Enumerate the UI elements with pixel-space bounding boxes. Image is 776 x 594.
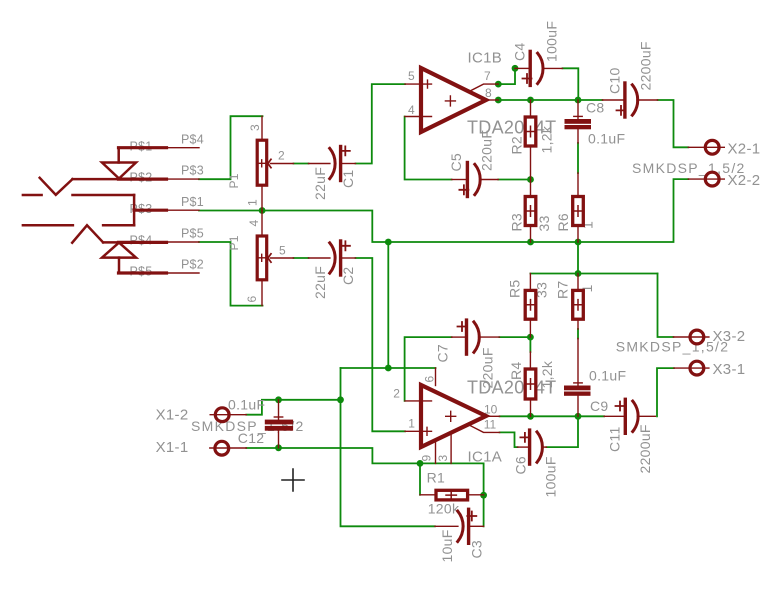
node X1-2 rail corner [337,396,344,403]
pot1 pin 3 lead [261,116,263,140]
svg-text:6: 6 [245,296,259,303]
svg-text:C5: C5 [448,153,464,172]
svg-text:C2: C2 [340,267,356,286]
svg-text:22uF: 22uF [312,266,328,299]
capacitor C2 22uF [309,241,356,275]
svg-text:C1: C1 [340,170,356,189]
resistor R5 33 [525,274,536,338]
svg-text:P$2: P$2 [181,258,204,272]
svg-text:X1-1: X1-1 [156,439,189,456]
svg-text:C9: C9 [590,398,609,414]
resistor R7 1 [573,274,584,330]
C4 straight plate [529,51,532,85]
wire C11 right to X3-1 [657,368,674,416]
C10 curved plate [632,85,637,115]
svg-text:X2-2: X2-2 [728,172,761,189]
wire R1 right column down to C3 [483,463,485,526]
jack stub1 vertical [117,148,120,163]
svg-text:0.1uF: 0.1uF [589,368,626,384]
C4 curved plate [538,53,543,83]
node C12 bottom [275,444,282,451]
wire C5 right to R2/R3 node [498,179,530,181]
node IC1B pin8 [495,97,502,104]
capacitor C10 2200uF [602,83,657,117]
C1 plus [341,146,350,155]
wire R5/R7 row [530,273,657,275]
jack sleeve seg A [23,224,73,227]
wire net P$1: jack pin across to X2-2 riser [199,179,688,242]
C2 curved plate [330,243,335,273]
svg-text:2: 2 [278,149,285,163]
svg-text:7: 7 [484,69,491,83]
jack triangle 2 [102,243,136,258]
svg-text:R4: R4 [508,362,524,381]
resistor R3 33 [525,180,536,243]
svg-text:1,2k: 1,2k [539,360,555,388]
wire net P$3: jack pin to pot P1 pin 3 [199,116,263,179]
node R4 bottom / output row [527,413,534,420]
C1 curved plate [330,148,335,178]
C11 plus [616,402,625,411]
wire C4 right down to output row [563,68,579,100]
pot2 wiper arrowhead [268,254,271,262]
node R5 bottom / C7 / R4 [527,334,534,341]
node R2 bottom / C5 / R3 [527,176,534,183]
C7 curved plate [474,322,479,352]
svg-text:R2: R2 [509,136,525,155]
jack switch lambda contact [72,225,103,242]
node R2 top [527,97,534,104]
node R1 right [480,492,487,499]
svg-text:R3: R3 [509,213,525,232]
wire IC1A output row pin10 to C11 [500,415,604,417]
jack sleeve dash [23,194,42,197]
wire IC1A pin6 row [341,367,436,369]
capacitor C9 0.1uF [564,339,591,417]
svg-text:X3-1: X3-1 [713,361,746,378]
potentiometer P1 lower half [257,211,293,306]
node R7 top [575,270,582,277]
svg-text:100uF: 100uF [543,456,559,497]
svg-text:3: 3 [436,455,450,462]
node C4 left [512,65,519,72]
svg-text:9: 9 [420,455,434,462]
potentiometer P1 upper half [257,116,293,210]
svg-text:C6: C6 [513,456,529,475]
IC1B pin 5 lead + plus [405,80,432,88]
capacitor C8 0.1uF [565,100,592,143]
jack line pin P$5 stub5 [119,272,167,275]
wire R5/R4 node gap [529,337,531,352]
jack line pin P$1 stub1 [119,146,167,149]
svg-text:P$1: P$1 [181,195,204,209]
jack tip line [73,194,135,197]
C4 plus [523,74,532,83]
svg-text:11: 11 [484,418,497,432]
wire branch node A down to IC1A pin6 row [387,242,389,368]
svg-text:2200uF: 2200uF [637,424,653,473]
wire X1-2 rail down to bottom rail toward C3 [341,400,435,527]
wire IC1B output row pin8 to C10 [498,99,602,101]
IC1B pin 8 lead [486,99,498,101]
IC1A pin 6 lead [435,368,437,386]
C3 plus [467,512,476,521]
jack stub5 vertical [118,258,121,273]
svg-text:X3-2: X3-2 [713,328,746,345]
wire C1 to IC1B pin 5 [356,84,406,163]
svg-text:0.1uF: 0.1uF [228,397,265,413]
wire pin7 up to C4 left [498,68,515,84]
svg-text:3: 3 [248,124,262,131]
IC1A origin cross [446,411,456,421]
pot2 pin 6 lead [261,280,263,306]
resistor R2 1,2k [525,100,536,180]
pot1 wiper arrowhead [268,159,271,167]
capacitor C11 2200uF [604,399,655,433]
svg-text:C8: C8 [586,100,605,116]
capacitor C3 10uF [435,509,484,543]
node IC1B pin7 [495,81,502,88]
capacitor C6 100uF [518,430,547,464]
svg-text:120k: 120k [428,500,460,516]
C3 straight plate [467,509,470,543]
wire C2 to IC1A pin 1 [356,258,406,431]
C5 curved plate [475,164,480,194]
svg-text:IC1B: IC1B [468,50,503,67]
pot2 pin 4 lead [261,211,263,237]
svg-text:33: 33 [536,215,552,231]
terminal X2-1 [688,140,724,154]
C3 curved plate [458,511,463,541]
pot2 wiper lead [271,257,294,259]
terminal X1-2 [210,408,246,422]
svg-text:2200uF: 2200uF [638,41,654,90]
IC1A pin 11 lead [470,426,500,433]
C10 plus [617,106,626,115]
svg-text:P$4: P$4 [130,234,153,248]
svg-text:C10: C10 [607,67,623,94]
IC1A pin 2 lead [405,400,432,402]
capacitor C12 0.1uF [265,400,293,448]
pot1 wiper lead [271,163,294,165]
svg-text:6: 6 [423,376,437,383]
jack tip vertical [133,195,136,225]
node R6 bottom [575,239,582,246]
node output A / C6 / C9 / C11 [575,413,582,420]
C2 straight plate [339,241,342,275]
node C12 top [275,396,282,403]
pot2 origin cross [258,254,265,261]
resistor R1 120k [420,490,484,500]
svg-text:P1: P1 [227,173,241,188]
svg-text:5: 5 [279,244,286,258]
jack connector J1 symbol [23,148,167,273]
wire R7 row to X3-2 [658,274,674,338]
C7 plus [458,322,467,331]
C1 straight plate [339,147,342,181]
terminal X2-2 [688,172,724,186]
svg-text:0.1uF: 0.1uF [588,131,625,147]
node pins 9/3 junction [417,460,424,467]
wire pin6 row down to X1-2 node [340,368,342,400]
IC1A pin 3 lead [450,433,452,463]
svg-text:R5: R5 [507,280,523,299]
C2 plus [341,241,350,250]
wire net X1-1 to IC1A pins 9/3 row [246,448,483,463]
svg-text:P1: P1 [227,235,241,250]
IC1B origin cross [445,96,455,106]
svg-text:5: 5 [408,69,415,83]
wire net P$5: jack pin to pot P1 pin 6 [199,242,263,306]
pot1 origin cross [258,160,265,167]
svg-text:1,2k: 1,2k [539,125,555,153]
IC1B pin 7 lead [470,84,498,91]
capacitor C4 100uF [515,51,563,85]
svg-text:R6: R6 [555,213,571,232]
C5 plus [459,185,468,194]
C6 straight plate [528,430,531,464]
wire C8 to R6 gap [577,143,579,173]
jack pin thick stubs [119,146,167,149]
capacitor C1 22uF [309,146,356,180]
capacitor C5 220uF [452,163,499,197]
svg-text:X2-1: X2-1 [728,140,761,157]
node C4/C8/C10 junction [575,97,582,104]
svg-text:C11: C11 [607,426,623,452]
resistor R6 1 [573,173,584,242]
IC1A pin 10 lead [486,415,500,417]
node pin6 row branch [385,365,392,372]
C10 straight plate [623,83,626,117]
svg-text:IC1A: IC1A [468,448,503,465]
wire C6 right up to output node [546,416,578,447]
jack tip lower seg [103,224,134,227]
op-amp IC1B [405,68,498,132]
svg-text:220uF: 220uF [480,347,496,388]
svg-text:C3: C3 [469,540,485,559]
node A on long rail [385,239,392,246]
wire pot2 wiper to C2 [294,257,309,259]
svg-text:2: 2 [393,387,400,401]
svg-text:4: 4 [408,103,415,117]
wire branch R6 column to R7 row [577,242,579,274]
svg-text:C12: C12 [238,430,265,446]
C5 straight plate [466,163,469,197]
IC1A pin 9 lead [435,440,437,463]
terminal X3-2 [673,330,709,344]
svg-text:C7: C7 [435,344,451,363]
sheet origin cross [282,469,304,491]
svg-text:22uF: 22uF [312,167,328,200]
svg-text:4: 4 [247,220,261,227]
wire 9/3 node down to R1 left [419,463,421,494]
wire C10 right to X2-1 [658,100,689,147]
svg-text:P$5: P$5 [181,227,204,241]
op-amp IC1A [405,368,500,463]
jack switch V contact [40,178,73,195]
svg-text:10uF: 10uF [439,529,455,562]
wire IC1A pin2 up to C7 [405,337,452,401]
jack thin pin leads [167,147,200,149]
svg-text:220uF: 220uF [479,130,495,171]
svg-text:C4: C4 [512,43,528,62]
wire IC1B pin4 to C5 [405,117,452,180]
svg-text:1: 1 [246,199,260,206]
node pot P1 junction on net P$1 [259,207,266,214]
terminal X3-1 [674,361,709,375]
IC1A pin 1 lead + plus [405,427,432,435]
svg-text:100uF: 100uF [544,21,560,62]
C11 curved plate [633,401,638,431]
svg-text:P$4: P$4 [181,133,204,147]
wire R7 to C9 gap [577,329,579,339]
C11 straight plate [624,399,627,433]
C6 plus [520,433,529,442]
capacitor C7 220uF [452,320,500,354]
wire pot1 wiper to C1 [294,163,309,165]
svg-text:X1-2: X1-2 [156,406,189,423]
svg-text:R7: R7 [555,281,571,300]
pot1 pin 1 lead [261,186,263,211]
svg-text:1: 1 [408,417,415,431]
resistor R4 1,2k [525,352,536,416]
svg-text:P$3: P$3 [181,164,204,178]
C6 curved plate [537,432,542,462]
C7 straight plate [465,320,468,354]
wire IC1A pin11 to C6 [500,432,518,447]
IC1B pin 4 lead [405,116,432,118]
jack ring line (pin P$2) [73,178,167,181]
svg-text:R1: R1 [427,470,446,486]
wire C7 right to R5/R4 node [499,336,530,338]
terminal X1-1 [210,441,247,455]
jack triangle 1 [102,163,136,179]
node R3 bottom [527,239,534,246]
jack line pin P$4 [103,241,166,244]
wire net X1-2 to C12 top node [246,400,340,415]
